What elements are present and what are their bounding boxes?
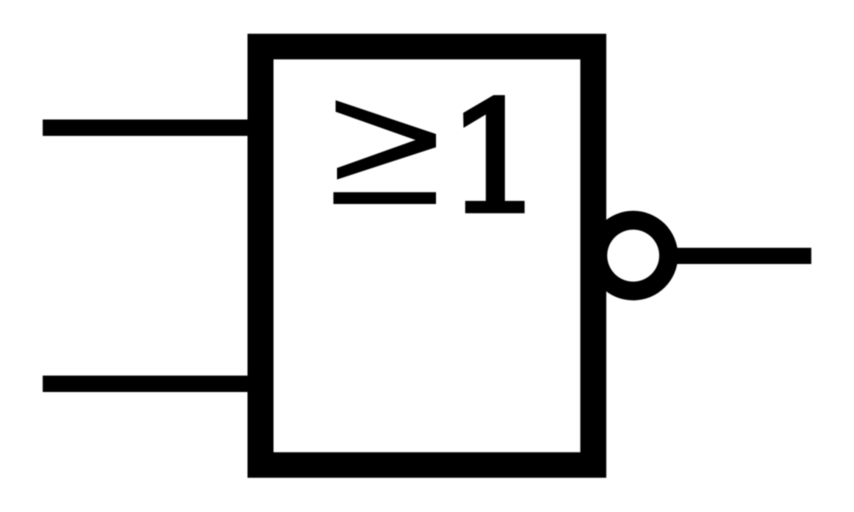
wire input A (top left horizontal wire) bbox=[43, 120, 255, 136]
label ≥1 : underline bar of ≥ bbox=[333, 192, 436, 204]
wire output (right horizontal wire) bbox=[670, 248, 811, 264]
label ≥1 : greater-or-equal chevron bbox=[336, 100, 436, 179]
inversion bubble on output bbox=[588, 211, 678, 301]
gate body U1 (rectangular IEC outline) bbox=[248, 34, 607, 478]
label ≥1 : digit 1 bbox=[463, 95, 524, 213]
wire input B (bottom left horizontal wire) bbox=[43, 376, 255, 392]
